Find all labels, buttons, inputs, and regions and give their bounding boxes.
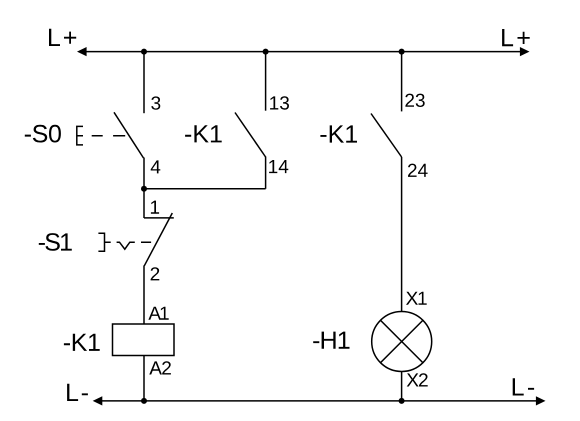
label -S1 (39, 233, 72, 251)
wire terminal 4 segment (143, 158, 145, 190)
pin 24 (408, 164, 428, 177)
switch -S1 blade (144, 213, 172, 266)
pin 23 (405, 94, 424, 107)
node dot top rail at 23 branch (399, 49, 405, 55)
node dot top rail at 13 branch (263, 49, 269, 55)
pin X1 (406, 292, 427, 305)
pin 4 (151, 160, 161, 173)
arrowhead bottom-left (93, 396, 103, 405)
switch -S0 blade (114, 112, 144, 158)
label L- right (513, 378, 534, 395)
arrowhead top-right (520, 47, 530, 56)
arrowhead top-left (77, 47, 87, 56)
pushbutton -S0 actuator (77, 126, 83, 144)
wire terminal 24 segment (401, 157, 403, 312)
lamp -H1 cross (380, 320, 423, 363)
pin 3 (151, 96, 160, 109)
wire terminal 2 segment (143, 266, 145, 325)
pushbutton -S0 link dashes (92, 135, 126, 137)
pin 1 (151, 201, 159, 214)
wire terminal 14 segment (265, 157, 267, 189)
wire parallel link node (144, 188, 266, 190)
label L+ left (49, 29, 76, 46)
pin X2 (407, 373, 428, 386)
pin A1 (148, 307, 168, 320)
label -H1 lamp (313, 332, 349, 349)
pushbutton -S1 link with detent (117, 242, 152, 249)
label -S0 (25, 125, 61, 143)
label L+ right (502, 29, 530, 46)
node dot bottom rail right (399, 398, 405, 404)
lamp -H1 circle (372, 312, 432, 372)
coil K1 rectangle (113, 324, 175, 356)
pin 14 (269, 160, 288, 173)
pushbutton -S1 actuator (98, 233, 110, 251)
wire terminal X2 segment (401, 372, 403, 401)
node dot bottom rail left (141, 398, 147, 404)
wire top rail L+ (80, 51, 527, 53)
wire terminal 23 segment (401, 52, 403, 112)
wire terminal A2 segment (143, 356, 145, 401)
wire terminal 3 segment (143, 52, 145, 114)
contact K1 13-14 blade (235, 113, 266, 158)
contact K1 23-24 blade (371, 114, 402, 158)
label -K1 contact 23-24 (320, 125, 357, 142)
node dot link junction (141, 186, 147, 192)
wire bottom rail L- (96, 400, 542, 402)
pin 2 (151, 267, 160, 280)
arrowhead bottom-right (536, 396, 546, 405)
node dot top rail at S0 branch (141, 49, 147, 55)
wire terminal 13 segment (265, 52, 267, 111)
pin A2 (149, 361, 171, 374)
label -K1 coil (64, 334, 100, 351)
pin 13 (270, 96, 289, 110)
label L- left (67, 384, 88, 401)
switch -S1 seat bar (144, 217, 174, 219)
label -K1 contact 13-14 (185, 125, 222, 142)
wire terminal 1 segment (143, 189, 145, 218)
